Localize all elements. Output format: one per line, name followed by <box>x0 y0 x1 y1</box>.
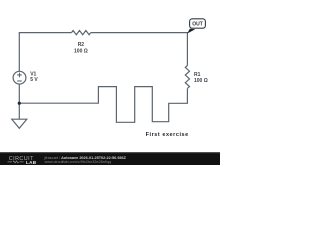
node junction dot <box>18 102 21 105</box>
flag pointer to node OUT <box>187 29 195 34</box>
resistor R1 <box>185 66 189 89</box>
wire V1 bottom to ground <box>18 84 20 119</box>
svg-text:5 V: 5 V <box>30 77 38 83</box>
svg-text:www.circuitlab.com/c/9fx2bn32e: www.circuitlab.com/c/9fx2bn32e28nf/qq <box>45 160 112 164</box>
footer bar <box>0 152 220 165</box>
wire bottom meander: junction to R1 bottom <box>19 87 187 123</box>
ground <box>12 119 27 128</box>
svg-text:LAB: LAB <box>26 160 37 165</box>
svg-text:First exercise: First exercise <box>146 132 189 138</box>
footer logo wire glyph <box>8 161 24 163</box>
voltage source V1 <box>13 71 26 84</box>
resistor R2 <box>72 30 91 34</box>
wire top-right: R2 to corner node and down to R1 top <box>91 33 188 66</box>
svg-text:100 Ω: 100 Ω <box>194 78 208 84</box>
node flag OUT box <box>190 19 206 28</box>
svg-text:100 Ω: 100 Ω <box>74 48 88 54</box>
wire top-left: V1 top terminal up and right to R2 <box>19 33 71 72</box>
svg-text:OUT: OUT <box>192 22 203 28</box>
svg-text:R2: R2 <box>78 42 85 48</box>
